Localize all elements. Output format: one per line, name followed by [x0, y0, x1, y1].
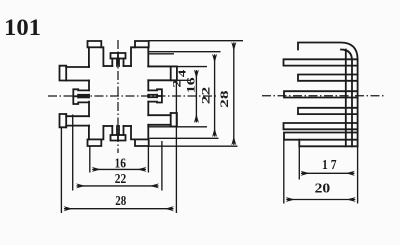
svg-text:2: 2	[169, 80, 183, 88]
svg-text:22: 22	[198, 87, 212, 105]
svg-text:16: 16	[114, 157, 126, 172]
svg-text:1 7: 1 7	[322, 158, 337, 173]
svg-text:28: 28	[115, 194, 126, 209]
svg-text:16: 16	[184, 77, 198, 93]
svg-text:28: 28	[217, 90, 231, 108]
svg-text:22: 22	[115, 172, 127, 187]
svg-text:101: 101	[4, 15, 41, 41]
svg-text:20: 20	[315, 182, 331, 197]
svg-text:4: 4	[177, 69, 189, 77]
